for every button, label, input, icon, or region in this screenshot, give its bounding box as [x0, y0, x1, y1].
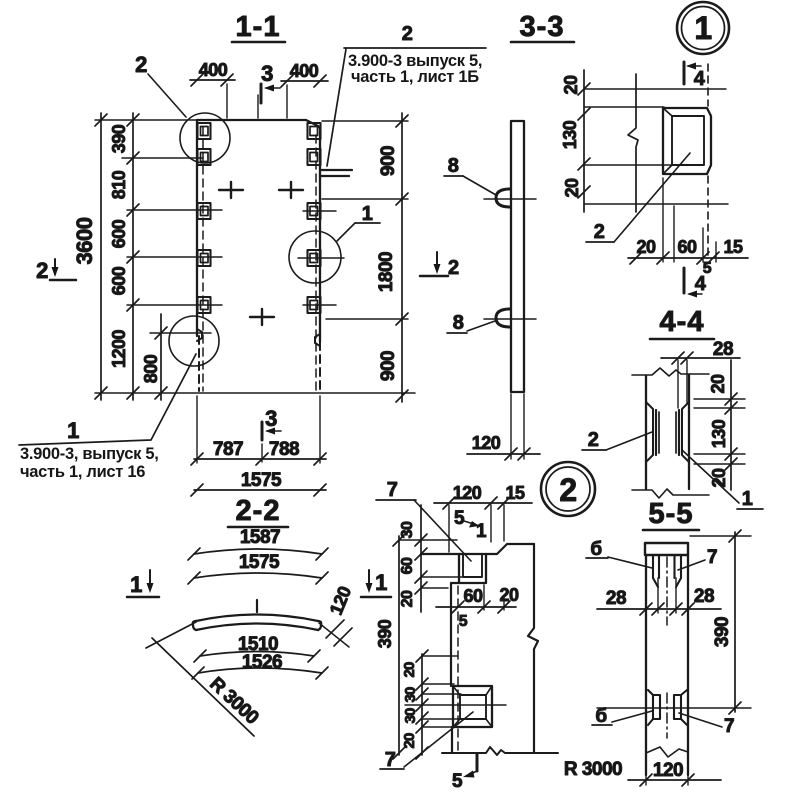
svg-text:20: 20: [399, 590, 416, 607]
detail 1 extension lines: [584, 89, 728, 204]
detail 1 hidden edge dashed: [707, 64, 709, 256]
svg-text:900: 900: [378, 351, 399, 381]
svg-text:часть 1, лист 16: часть 1, лист 16: [20, 463, 145, 481]
detail 1 label 2: [586, 153, 690, 243]
notch right 2: [308, 149, 321, 165]
svg-text:787: 787: [213, 439, 243, 460]
svg-text:30: 30: [402, 708, 419, 724]
5-5 bottom slot left: [648, 690, 660, 725]
detail 2 chain 390: [393, 534, 457, 759]
svg-text:7: 7: [724, 716, 734, 737]
svg-text:7: 7: [385, 749, 396, 771]
5-5 label 7 bottom: [679, 713, 734, 737]
svg-text:390: 390: [375, 619, 395, 648]
2-2 marker 1 left: [127, 570, 159, 597]
dim 28 of 4-4: [661, 352, 740, 408]
svg-text:28: 28: [694, 586, 714, 607]
5-5 axis line: [666, 557, 668, 738]
svg-text:2: 2: [402, 23, 413, 45]
bottom dim 1575: [191, 484, 326, 496]
2-2 center tick: [256, 600, 258, 612]
5-5 dim 120: [628, 770, 721, 786]
2-2 dim 1510: [194, 650, 320, 662]
svg-text:400: 400: [290, 61, 319, 81]
svg-text:400: 400: [199, 60, 228, 80]
2-2 radius line R3000: [146, 622, 254, 736]
svg-text:б: б: [595, 706, 606, 727]
notch right 5: [308, 297, 321, 313]
svg-text:1800: 1800: [376, 252, 397, 292]
2-2 thickness dim 120: [319, 583, 355, 647]
4-4 callout 1: [682, 450, 763, 510]
section 3-3 title: [511, 11, 574, 43]
detail 2 chain 20/30/30/20: [416, 650, 461, 759]
5-5 top slot right: [675, 555, 682, 587]
svg-text:часть 1, лист 1Б: часть 1, лист 1Б: [351, 68, 479, 86]
svg-text:600: 600: [109, 266, 129, 295]
svg-text:4-4: 4-4: [660, 306, 705, 338]
notch left 2: [198, 149, 211, 165]
svg-text:600: 600: [109, 219, 129, 248]
svg-text:28: 28: [713, 339, 733, 360]
svg-text:1-1: 1-1: [236, 11, 281, 43]
svg-text:800: 800: [141, 354, 161, 383]
svg-text:8: 8: [448, 155, 459, 177]
svg-text:1200: 1200: [109, 329, 129, 368]
dim chain 390/810/600/600/1200: [127, 113, 139, 400]
dim 120 of 3-3: [467, 394, 540, 460]
note reference bottom: [19, 354, 196, 445]
svg-text:1: 1: [67, 418, 79, 443]
dim chain 3600: [95, 113, 107, 400]
svg-text:2: 2: [588, 429, 599, 451]
detail 2 marker 5-1: [454, 508, 487, 542]
svg-text:1: 1: [476, 521, 487, 542]
2-2 dim 1575: [188, 572, 328, 584]
svg-text:390: 390: [109, 124, 129, 153]
section marker 2 left: [36, 258, 76, 283]
4-4 callout 2: [582, 429, 652, 451]
svg-text:3600: 3600: [72, 217, 97, 264]
svg-text:20: 20: [401, 662, 418, 678]
svg-text:3: 3: [261, 61, 273, 86]
svg-text:1: 1: [375, 570, 387, 595]
svg-text:130: 130: [560, 120, 580, 149]
svg-text:2: 2: [135, 52, 147, 77]
svg-text:1575: 1575: [241, 470, 282, 491]
4-4 groove left: [646, 402, 659, 462]
notch right 4: [308, 250, 321, 266]
svg-text:900: 900: [378, 146, 399, 176]
section marker 4 bottom: [684, 268, 707, 298]
detail 2 surface profile: [421, 544, 538, 753]
detail 2 axis dashed: [457, 586, 459, 750]
detail 1 dim chain left 20/130/20: [578, 70, 590, 212]
4-4 dim chain right 20/130/20: [694, 360, 745, 490]
svg-text:120: 120: [453, 483, 482, 503]
5-5 top cap: [645, 543, 688, 555]
svg-text:788: 788: [269, 439, 299, 460]
2-2 dim 1587: [188, 548, 328, 560]
svg-text:120: 120: [472, 433, 501, 453]
svg-text:30: 30: [399, 521, 416, 538]
svg-text:3-3: 3-3: [520, 11, 565, 43]
svg-text:1526: 1526: [242, 652, 282, 673]
5-5 break mark: [646, 747, 688, 757]
5-5 label b bottom: [592, 706, 652, 727]
svg-text:7: 7: [387, 479, 398, 501]
notch left 1: [198, 123, 211, 139]
notch right 1: [308, 123, 321, 139]
detail 2 bottom surface line: [442, 747, 558, 755]
callout circle bottom-left: [169, 316, 219, 366]
bottom dim 787/788: [191, 396, 326, 465]
svg-text:1: 1: [362, 203, 373, 225]
detail 2 edge strip: [451, 583, 452, 753]
svg-text:60: 60: [399, 557, 416, 574]
svg-text:15: 15: [505, 483, 525, 503]
note text top: [348, 52, 482, 86]
svg-text:60: 60: [463, 586, 483, 606]
extension lines right: [298, 121, 408, 319]
centering cross C: [250, 309, 274, 325]
svg-text:3: 3: [265, 406, 277, 431]
section 3-3 bar: [511, 121, 524, 392]
svg-text:2: 2: [36, 258, 48, 283]
4-4 top break line: [632, 368, 709, 376]
section 5-5 title: [643, 498, 699, 530]
svg-text:5: 5: [454, 508, 465, 529]
detail 2 bottom pocket: [453, 686, 492, 727]
4-4 bottom break line: [632, 489, 709, 498]
label 8 bottom: [447, 312, 495, 334]
svg-text:20: 20: [636, 237, 656, 257]
dim chain 800: [155, 314, 167, 400]
svg-text:4: 4: [694, 68, 706, 90]
top dim 400 right: [258, 75, 328, 118]
5-5 dims 28 28: [597, 578, 721, 615]
5-5 label b top: [586, 539, 652, 568]
callout circle 1 right: [289, 231, 341, 283]
5-5 body edges: [646, 555, 688, 775]
svg-text:60: 60: [677, 237, 697, 257]
callout label 1 leader: [337, 203, 380, 241]
svg-text:15: 15: [723, 237, 743, 257]
5-5 bottom slot right: [674, 690, 687, 725]
svg-text:120: 120: [653, 760, 683, 781]
5-5 dim 390: [597, 530, 751, 714]
jog right edge: [315, 334, 320, 346]
svg-text:2: 2: [594, 221, 605, 243]
detail 2 top pocket: [451, 554, 486, 583]
svg-text:1: 1: [130, 572, 142, 597]
svg-text:5: 5: [452, 771, 463, 792]
svg-text:810: 810: [109, 170, 129, 199]
note reference top: [321, 23, 486, 176]
svg-text:8: 8: [453, 312, 464, 334]
centering cross B: [279, 182, 303, 198]
detail 2 label 7 top: [376, 479, 471, 561]
section marker 3 top: [261, 61, 280, 103]
jog left edge: [197, 329, 202, 341]
svg-text:2-2: 2-2: [236, 495, 281, 527]
svg-text:20: 20: [708, 374, 728, 394]
5-5 label 7 top: [678, 547, 717, 570]
note text bottom: [20, 445, 158, 481]
svg-text:R 3000: R 3000: [564, 759, 622, 780]
svg-text:130: 130: [709, 419, 729, 448]
svg-text:2: 2: [559, 472, 576, 508]
section marker 4 top: [684, 62, 706, 90]
svg-text:1575: 1575: [239, 552, 280, 573]
detail 2 chain 30/60/20: [415, 505, 462, 612]
detail badge 1: [677, 2, 729, 54]
centering cross A: [219, 182, 243, 198]
svg-text:390: 390: [712, 617, 733, 647]
callout label 2 leader: [135, 52, 186, 117]
detail 1 bottom dims 20/60/15/5: [628, 178, 748, 264]
panel hidden inner edges dashed: [203, 127, 316, 391]
svg-text:20: 20: [401, 733, 418, 749]
svg-text:30: 30: [402, 687, 419, 703]
svg-text:5-5: 5-5: [649, 498, 694, 530]
detail 2 top dim 120/15: [434, 497, 532, 552]
detail badge 2: [541, 462, 595, 516]
svg-text:б: б: [590, 539, 601, 560]
notch right 3: [308, 203, 321, 219]
2-2 dim 1526: [192, 667, 328, 679]
label 8 top: [444, 155, 496, 195]
5-5 top slot left: [653, 555, 659, 587]
2-2 curved panel band: [193, 615, 321, 631]
svg-text:20: 20: [561, 75, 581, 95]
svg-text:20: 20: [499, 585, 519, 605]
dim chain right 900/1800/900: [396, 113, 408, 402]
section marker 3 bottom: [262, 406, 281, 440]
svg-text:1587: 1587: [240, 527, 280, 548]
weld bump 1: [484, 189, 536, 207]
svg-text:2: 2: [448, 257, 459, 279]
svg-text:4: 4: [695, 273, 707, 295]
top dim 400 left: [190, 74, 235, 118]
notch left 3: [198, 203, 211, 219]
svg-text:28: 28: [606, 588, 626, 609]
svg-text:5: 5: [459, 613, 468, 630]
detail 2 label 7 bottom: [380, 712, 473, 771]
svg-text:20: 20: [562, 178, 582, 198]
detail 1 break line: [628, 74, 638, 212]
panel bottom boundary line: [95, 392, 415, 394]
section marker 2 mid: [420, 252, 459, 279]
section 4-4 title: [650, 306, 714, 339]
section 1-1 title: [232, 11, 285, 43]
callout circle 2 top-left: [180, 113, 230, 163]
svg-text:1: 1: [694, 10, 711, 46]
panel 1-1 outline: [197, 120, 320, 391]
svg-text:3.900-3, выпуск 5,: 3.900-3, выпуск 5,: [20, 445, 158, 463]
2-2 marker 1 right: [361, 570, 391, 597]
section 2-2 title: [228, 495, 288, 527]
svg-text:7: 7: [707, 547, 717, 568]
notch left 5: [198, 297, 211, 313]
4-4 element edges: [646, 375, 689, 489]
extension lines left: [95, 120, 222, 333]
detail 2 dim 60/20: [436, 585, 516, 613]
detail 2 axis horizontal: [405, 704, 506, 706]
svg-text:1: 1: [742, 488, 753, 510]
notch left 4: [198, 250, 211, 266]
detail 1 profile: [663, 108, 711, 174]
4-4 groove right: [676, 402, 689, 462]
weld bump 2: [484, 309, 536, 327]
detail 2 marker 5 bottom: [452, 754, 477, 792]
